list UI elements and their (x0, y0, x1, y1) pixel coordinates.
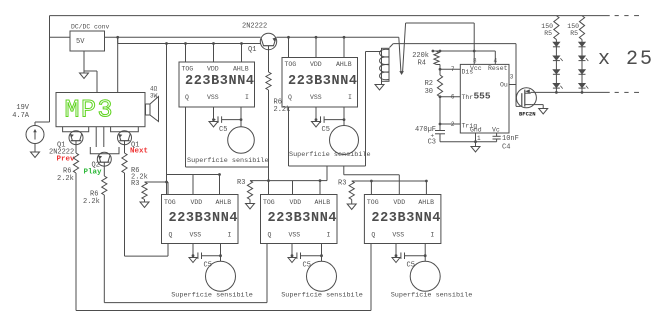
svg-text:Q: Q (288, 94, 292, 101)
svg-text:R5: R5 (570, 30, 578, 37)
svg-text:4Ω: 4Ω (150, 86, 158, 93)
svg-text:555: 555 (473, 91, 490, 102)
svg-text:Prev: Prev (57, 156, 76, 164)
svg-text:5V: 5V (76, 38, 85, 46)
svg-text:223B3NN4: 223B3NN4 (268, 211, 338, 226)
svg-text:Q: Q (371, 232, 375, 239)
svg-text:Vc: Vc (492, 127, 500, 134)
svg-text:TOG: TOG (285, 61, 297, 68)
svg-text:Q: Q (268, 232, 272, 239)
svg-text:Ou: Ou (500, 82, 508, 89)
svg-text:223B3NN4: 223B3NN4 (169, 211, 239, 226)
svg-text:I: I (327, 232, 331, 239)
svg-text:TOG: TOG (263, 199, 275, 206)
svg-text:AHLB: AHLB (418, 199, 434, 206)
svg-text:C3: C3 (428, 139, 436, 147)
svg-text:TOG: TOG (367, 199, 379, 206)
svg-text:I: I (245, 94, 249, 101)
svg-text:Play: Play (84, 169, 103, 177)
svg-text:3: 3 (510, 74, 514, 81)
svg-text:2.2k: 2.2k (83, 198, 100, 206)
svg-text:VSS: VSS (207, 94, 219, 101)
svg-text:223B3NN4: 223B3NN4 (185, 74, 255, 89)
svg-text:Thr: Thr (462, 94, 474, 101)
svg-text:C5: C5 (219, 126, 227, 134)
svg-text:4.7A: 4.7A (12, 112, 30, 120)
svg-text:R4: R4 (418, 60, 426, 68)
svg-text:I: I (228, 232, 232, 239)
svg-text:R5: R5 (544, 30, 552, 37)
svg-text:Superficie sensibile: Superficie sensibile (281, 292, 363, 300)
svg-text:Q: Q (185, 94, 189, 101)
svg-text:VDD: VDD (191, 199, 203, 206)
svg-text:DC/DC conv: DC/DC conv (71, 24, 110, 31)
svg-text:R3: R3 (338, 180, 346, 188)
svg-text:R3: R3 (131, 180, 139, 188)
svg-text:Superficie sensibile: Superficie sensibile (391, 292, 473, 300)
svg-text:VDD: VDD (393, 199, 405, 206)
svg-text:Q1: Q1 (248, 46, 256, 54)
svg-text:19V: 19V (16, 104, 29, 112)
svg-text:C5: C5 (303, 262, 311, 270)
svg-text:R2: R2 (425, 80, 433, 88)
svg-text:TOG: TOG (182, 66, 194, 73)
svg-text:AHLB: AHLB (216, 199, 232, 206)
svg-text:x 25: x 25 (598, 48, 654, 71)
svg-text:Superficie sensibile: Superficie sensibile (171, 292, 253, 300)
svg-text:VDD: VDD (207, 66, 219, 73)
svg-text:I: I (348, 94, 352, 101)
svg-text:VSS: VSS (310, 94, 322, 101)
svg-text:VDD: VDD (290, 199, 302, 206)
svg-text:1: 1 (477, 135, 481, 142)
svg-text:VDD: VDD (310, 61, 322, 68)
svg-text:Superficie sensibile: Superficie sensibile (187, 157, 269, 165)
svg-text:150: 150 (541, 23, 553, 30)
svg-text:10nF: 10nF (502, 135, 519, 143)
svg-text:R3: R3 (237, 179, 245, 187)
svg-text:VSS: VSS (190, 232, 202, 239)
svg-text:Dis: Dis (462, 69, 474, 76)
svg-text:BFC2N: BFC2N (519, 111, 536, 118)
svg-text:AHLB: AHLB (233, 66, 249, 73)
svg-text:C4: C4 (502, 144, 510, 152)
svg-text:2N2222: 2N2222 (242, 23, 267, 31)
svg-text:VSS: VSS (289, 232, 301, 239)
svg-text:223B3NN4: 223B3NN4 (288, 74, 358, 89)
svg-text:+: + (431, 133, 435, 140)
svg-text:Superficie sensibile: Superficie sensibile (289, 151, 371, 159)
svg-text:C5: C5 (407, 262, 415, 270)
svg-text:30: 30 (425, 88, 433, 96)
svg-text:2.2k: 2.2k (57, 175, 74, 183)
svg-text:Next: Next (130, 148, 148, 156)
svg-text:8: 8 (473, 58, 477, 65)
svg-text:223B3NN4: 223B3NN4 (371, 211, 441, 226)
svg-text:Gnd: Gnd (470, 127, 482, 134)
svg-text:3W: 3W (150, 93, 158, 100)
svg-text:C5: C5 (322, 126, 330, 134)
svg-text:Reset: Reset (488, 65, 508, 72)
svg-text:AHLB: AHLB (315, 199, 331, 206)
svg-text:AHLB: AHLB (336, 61, 352, 68)
svg-text:I: I (430, 232, 434, 239)
svg-text:VSS: VSS (392, 232, 404, 239)
svg-text:Q: Q (169, 232, 173, 239)
svg-text:150: 150 (567, 23, 579, 30)
svg-text:MP3: MP3 (65, 96, 115, 125)
svg-text:TOG: TOG (164, 199, 176, 206)
